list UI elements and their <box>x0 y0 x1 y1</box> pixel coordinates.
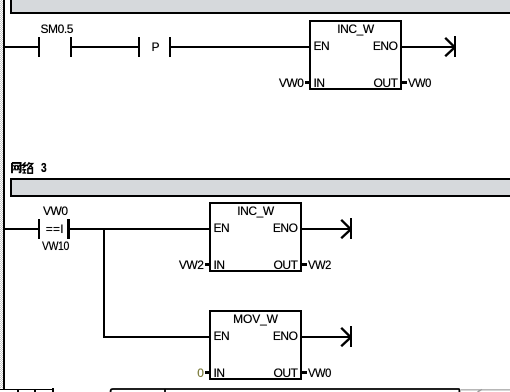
pin stub OUT <box>302 371 307 373</box>
left hatched margin strip <box>0 0 3 388</box>
network 3 label (CJK) <box>10 161 50 175</box>
pin OUT <box>309 78 398 89</box>
operand VW0 at OUT <box>408 78 431 89</box>
operand VW0 at IN <box>204 78 304 89</box>
pin stub OUT <box>402 81 407 83</box>
pin EN <box>314 41 330 52</box>
pin ENO <box>209 223 298 234</box>
wire ENO to arrow <box>402 46 454 48</box>
operand VW2 at IN <box>104 260 204 271</box>
network 3 title bar <box>10 178 510 197</box>
open branch arrow (network 3 upper) <box>350 218 352 239</box>
pin IN <box>214 260 225 271</box>
pin ENO <box>209 331 298 342</box>
operand VW0 at OUT <box>308 368 331 379</box>
pin stub IN <box>205 263 209 265</box>
pin EN <box>214 223 230 234</box>
box MOV_W U3 (network 3) <box>209 310 302 380</box>
compare contact ==I <box>38 219 40 239</box>
box INC_W U1 (network 2) <box>309 20 402 90</box>
pin stub OUT <box>302 263 307 265</box>
open branch arrow (network 2) <box>454 36 456 57</box>
wire ENO to arrow (network 3 upper) <box>302 228 350 230</box>
wire rail to compare contact <box>5 228 38 230</box>
branch vertical wire <box>103 228 105 338</box>
pin OUT <box>209 260 298 271</box>
operand VW0 (top) <box>43 206 68 217</box>
box INC_W U2 (network 3) <box>209 202 302 272</box>
pin IN <box>314 78 325 89</box>
pin stub IN <box>305 81 309 83</box>
operand constant 0 at IN <box>104 368 204 379</box>
power rail (left bus bar) <box>3 0 5 390</box>
pin EN <box>214 331 230 342</box>
pin IN <box>214 368 225 379</box>
operand VW2 at OUT <box>308 260 331 271</box>
compare op ==I <box>46 224 64 235</box>
char 络 <box>22 162 33 173</box>
network 2 title bar <box>10 0 510 14</box>
open branch arrow (network 3 lower) <box>350 326 352 347</box>
wire ENO to arrow (network 3 lower) <box>302 336 350 338</box>
operand VW10 (bottom) <box>42 241 69 252</box>
char 网 <box>12 163 21 173</box>
pin ENO <box>309 41 398 52</box>
contact SM0.5 <box>38 37 40 57</box>
wire compare contact to branch and box <box>70 228 209 230</box>
contact P (positive edge) <box>138 37 140 57</box>
wire P to INC_W box <box>171 46 309 48</box>
pin OUT <box>209 368 298 379</box>
bottom-left cell separators <box>17 390 19 392</box>
bottom-right rounded panel top edge <box>108 384 510 392</box>
wire SM0.5 to P <box>72 46 138 48</box>
pin stub IN <box>205 371 209 373</box>
wire rail to contact SM0.5 <box>5 46 38 48</box>
branch wire to MOV_W <box>105 336 209 338</box>
bottom-left table fragment top line <box>0 389 54 391</box>
